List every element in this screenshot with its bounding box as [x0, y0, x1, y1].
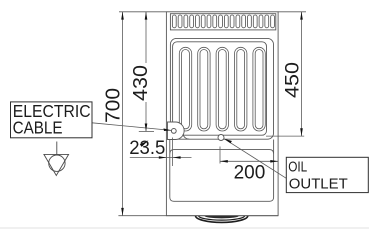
svg-text:23.5: 23.5: [129, 138, 165, 159]
svg-text:CABLE: CABLE: [13, 118, 63, 138]
svg-text:OUTLET: OUTLET: [289, 176, 348, 193]
svg-text:450: 450: [282, 62, 304, 98]
svg-text:430: 430: [130, 65, 152, 101]
svg-text:OIL: OIL: [288, 158, 307, 175]
svg-text:700: 700: [102, 88, 124, 123]
svg-text:200: 200: [234, 163, 266, 184]
